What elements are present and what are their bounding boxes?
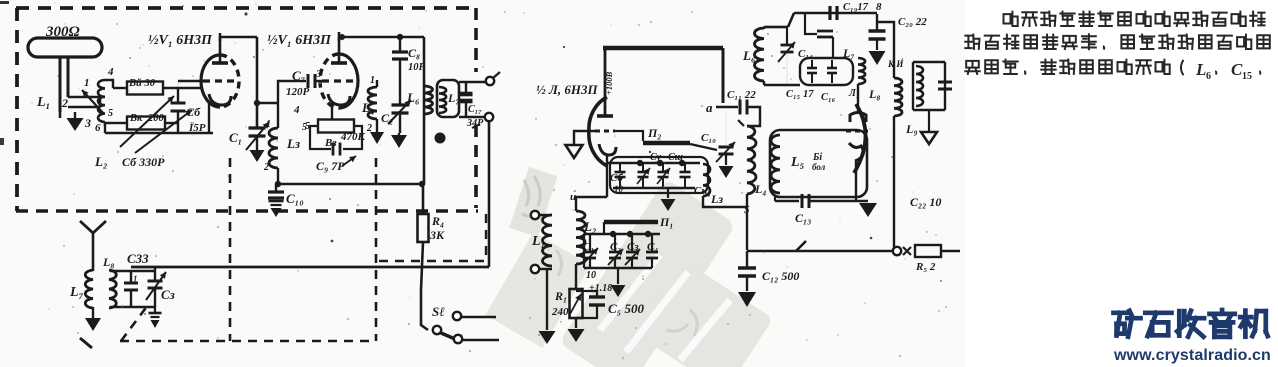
- resistor B2 200: [105, 122, 113, 123]
- capacitor C7: [307, 74, 310, 88]
- cathode lead V1a: [208, 101, 210, 133]
- top rail with C19: [764, 26, 788, 29]
- cathode hook: [849, 143, 863, 161]
- svg-text:С₁₉17: С₁₉17: [843, 2, 869, 13]
- svg-text:С₅ 500: С₅ 500: [608, 301, 644, 316]
- Chinese paragraph line 1: [1004, 12, 1018, 26]
- oscillator coil box L5: [770, 130, 867, 197]
- switch P2 bar: [643, 141, 690, 145]
- triode &#189;V&#8321; 6&#1053;3&#1055;: [201, 55, 220, 107]
- capacitor C5 500: [576, 291, 597, 297]
- svg-text:L₁: L₁: [36, 95, 50, 110]
- dashed shield box (RF unit outline): [16, 6, 478, 10]
- junction blob: [435, 133, 446, 144]
- svg-text:С₁₃: С₁₃: [795, 211, 811, 225]
- open ground triangle below L9: [928, 110, 930, 132]
- coil L7 (lower): [85, 270, 93, 308]
- watermark gray band: [485, 167, 773, 367]
- resistor R4 3K: [422, 184, 425, 214]
- coil L8 (lower): [109, 270, 116, 308]
- svg-text:L₆: L₆: [742, 48, 756, 63]
- svg-text:Вй 30: Вй 30: [128, 78, 156, 89]
- grid lead tube V1a to C6: [178, 80, 203, 82]
- plate (curved): [850, 113, 866, 123]
- junction dot: [397, 34, 403, 40]
- svg-text:1: 1: [266, 119, 271, 130]
- svg-text:L₉: L₉: [905, 122, 918, 136]
- coil L7 (osc): [858, 58, 865, 84]
- coil L4 with arrow: [368, 87, 377, 119]
- svg-text:R₁: R₁: [554, 289, 567, 303]
- capacitor C13: [774, 197, 776, 201]
- svg-text:бол: бол: [812, 162, 826, 172]
- svg-text:L₄: L₄: [361, 100, 374, 115]
- triode envelope arc: [589, 97, 607, 166]
- svg-text:С₁₁ 22: С₁₁ 22: [727, 89, 756, 101]
- svg-text:½V₁ 6Н3П: ½V₁ 6Н3П: [267, 33, 332, 48]
- node circle and R5: [893, 247, 901, 255]
- ground right of C13: [867, 202, 869, 204]
- ground below C1: [256, 148, 258, 150]
- svg-text:L₂: L₂: [94, 154, 107, 169]
- svg-text:С₁: С₁: [229, 130, 242, 145]
- output terminal 2: [459, 116, 485, 118]
- svg-text:240: 240: [551, 306, 569, 318]
- cathode lead V1b to R3: [331, 103, 333, 119]
- crystalradio logo characters: [1114, 310, 1127, 315]
- coil L6 (osc): [763, 27, 765, 29]
- svg-text:L₂: L₂: [583, 219, 596, 234]
- trimmer C7: [642, 163, 644, 172]
- coil L3 (small, at bank right): [703, 164, 710, 196]
- Chinese paragraph line 3: [965, 61, 979, 74]
- svg-text:15: 15: [1242, 71, 1252, 82]
- trimmer bank C1-C4 top bus: [584, 233, 660, 235]
- bottom rail input unit: [105, 132, 213, 134]
- svg-text:С₁₇: С₁₇: [468, 104, 482, 115]
- resistor R1 240: [570, 289, 583, 318]
- grid: [595, 130, 615, 133]
- svg-text:L₈: L₈: [868, 87, 881, 101]
- svg-text:Сб 330Р: Сб 330Р: [122, 155, 165, 169]
- ground below antenna: [74, 112, 76, 118]
- svg-text:С₁₆: С₁₆: [821, 92, 836, 103]
- trimmer C1: [589, 234, 591, 252]
- capacitor C8 10P: [399, 37, 401, 52]
- svg-text:www.crystalradio.cn: www.crystalradio.cn: [1113, 347, 1271, 364]
- svg-text:2: 2: [263, 162, 269, 173]
- antenna (lower Y): [80, 221, 106, 233]
- coil L3: [269, 128, 278, 168]
- svg-text:L₇: L₇: [842, 46, 855, 60]
- second trimmer bank box: [610, 157, 708, 193]
- wire grid circuit to L3: [257, 102, 278, 104]
- svg-text:+1.18: +1.18: [589, 283, 612, 294]
- svg-text:L₅: L₅: [790, 155, 805, 170]
- svg-text:6: 6: [95, 122, 101, 134]
- Chinese paragraph line 2: [965, 35, 979, 49]
- svg-text:С₁₀: С₁₀: [286, 191, 304, 206]
- svg-text:С₁₂ 500: С₁₂ 500: [762, 269, 799, 283]
- svg-text:а: а: [706, 100, 713, 115]
- svg-text:Sℓ: Sℓ: [432, 304, 445, 319]
- resistor R3 470K: [318, 120, 354, 133]
- grid dashes: [846, 130, 868, 133]
- svg-text:С₂: С₂: [381, 111, 393, 125]
- svg-text:6: 6: [1206, 71, 1211, 82]
- svg-text:5: 5: [108, 108, 113, 119]
- long wire from tank to IF terminals: [131, 266, 489, 269]
- trimmer C3: [631, 234, 633, 252]
- svg-text:Сш: Сш: [668, 152, 683, 163]
- trimmer C2: [614, 234, 616, 252]
- trimmer C6 10: [619, 163, 621, 172]
- svg-text:С₈: С₈: [408, 46, 420, 60]
- IF transformer L6 L7: [423, 37, 426, 184]
- svg-text:Сб: Сб: [610, 172, 623, 184]
- tank top/bottom rails: [110, 270, 155, 272]
- svg-text:R₄: R₄: [431, 214, 444, 228]
- svg-text:Вз: Вз: [324, 137, 337, 149]
- ground below bank: [617, 268, 619, 284]
- svg-text:Сз: Сз: [627, 241, 639, 253]
- svg-text:5: 5: [302, 122, 307, 133]
- coil L2 (antenna coupling coil): [98, 80, 105, 122]
- svg-text:Lз: Lз: [286, 136, 300, 151]
- wire L2 top to cathode line: [576, 197, 607, 211]
- capacitor C17 34P: [465, 82, 467, 94]
- svg-text:½V₁ 6Н3П: ½V₁ 6Н3П: [148, 33, 213, 48]
- svg-text:Сз: Сз: [161, 287, 175, 302]
- switch P1 bar: [604, 220, 658, 225]
- coil L4 (osc grid): [747, 126, 756, 194]
- dashed tuning-gang box (lower): [229, 158, 232, 341]
- tuning slug arrows: [120, 96, 174, 147]
- svg-text:Lз: Lз: [710, 192, 723, 206]
- svg-text:L₇: L₇: [69, 285, 84, 300]
- capacitor C33: [130, 271, 132, 283]
- loop antenna L1: [28, 38, 102, 57]
- svg-text:С33: С33: [127, 251, 149, 266]
- svg-text:С₂₀ 22: С₂₀ 22: [898, 16, 927, 28]
- svg-text:С₄: С₄: [647, 241, 658, 253]
- long bottom wire: [893, 130, 895, 251]
- svg-text:L₄: L₄: [754, 182, 767, 196]
- wire top rail input unit: [105, 80, 113, 88]
- ground below C2: [398, 133, 400, 135]
- triode (right half arc): [854, 104, 866, 173]
- svg-text:П₁: П₁: [659, 215, 674, 229]
- svg-text:R₅ 2: R₅ 2: [915, 261, 936, 273]
- grid to P2 stub: [615, 131, 643, 141]
- bottom rail wire with C10: [278, 183, 424, 186]
- coil L1 (input): [543, 215, 553, 266]
- svg-text:½ Л, 6Н3П: ½ Л, 6Н3П: [536, 82, 599, 97]
- svg-text:Су: Су: [650, 152, 662, 163]
- svg-text:L₆: L₆: [406, 90, 420, 105]
- padder box C15 C16: [800, 58, 853, 85]
- svg-text:С₁₅ 17: С₁₅ 17: [786, 89, 814, 100]
- plate wire V1b: [338, 37, 341, 41]
- svg-text:L: L: [1195, 60, 1206, 79]
- capacitor C3 variable: [154, 267, 156, 281]
- svg-text:3: 3: [84, 116, 91, 130]
- svg-text:П₂: П₂: [647, 126, 662, 140]
- terminal antenna top: [531, 211, 539, 219]
- resistor B1 30: [127, 82, 163, 95]
- ground below L7: [92, 307, 94, 316]
- capacitor C12 500: [746, 251, 748, 268]
- trimmer C14: [786, 28, 788, 45]
- trimmer C8: [662, 163, 664, 172]
- scan background tint: [0, 0, 965, 367]
- svg-text:L₇: L₇: [447, 91, 460, 105]
- capacitor C2 variable: [392, 103, 409, 106]
- svg-text:1: 1: [133, 274, 138, 284]
- capacitor C9 7P: [310, 126, 331, 149]
- svg-text:L₈: L₈: [102, 255, 115, 269]
- corner scan mark: [0, 138, 4, 145]
- bottom bus: [584, 267, 652, 269]
- svg-text:3К: 3К: [429, 228, 445, 242]
- thick plate supply wire: [603, 46, 723, 51]
- svg-text:1: 1: [370, 75, 375, 86]
- cathode: [599, 144, 616, 155]
- wire R4 to switch: [421, 242, 428, 330]
- svg-text:120Р: 120Р: [286, 86, 310, 98]
- plate wire V1a up and right to C1 line: [220, 36, 257, 39]
- L9 tank: [913, 61, 945, 63]
- trimmer C4: [651, 234, 653, 252]
- trimmer C9: [684, 163, 686, 172]
- scan speckles: [26, 2, 947, 359]
- ground below C3: [154, 307, 156, 313]
- capacitor C6 15P: [177, 88, 179, 102]
- svg-text:К И́: К И́: [887, 59, 904, 69]
- capacitor C11 22: [739, 100, 742, 115]
- svg-text:С₉ 7Р: С₉ 7Р: [316, 159, 345, 173]
- plate: [597, 114, 613, 118]
- svg-text:L₁: L₁: [531, 234, 545, 249]
- capacitor C1 variable: [249, 126, 266, 129]
- svg-text:1: 1: [84, 77, 90, 89]
- svg-text:4: 4: [107, 66, 114, 78]
- coil L8 (osc plate): [894, 78, 902, 116]
- svg-text:10: 10: [586, 270, 596, 281]
- svg-text:С₂: С₂: [610, 241, 621, 253]
- svg-text:С₁₀: С₁₀: [701, 132, 716, 144]
- grid capacitor (top small trimmer): [817, 30, 833, 33]
- svg-text:8: 8: [876, 1, 882, 13]
- svg-text:Вк: Вк: [129, 113, 143, 124]
- svg-text:С₂₂ 10: С₂₂ 10: [910, 195, 941, 209]
- vertical wire C1 branch: [256, 37, 259, 127]
- P2 to C10 link: [690, 144, 717, 150]
- wire L2 bottom to R1: [575, 264, 577, 289]
- ground below R1: [575, 318, 577, 328]
- bank bottom bus + ground: [613, 187, 695, 189]
- svg-text:4: 4: [293, 104, 300, 116]
- triode &#189;V&#8321; 6&#1053;3&#1055;: [339, 54, 358, 108]
- output terminal 1: [459, 81, 486, 83]
- terminal antenna bottom: [531, 265, 539, 273]
- C20 22 to ground: [876, 14, 878, 31]
- svg-text:2: 2: [61, 96, 68, 110]
- coil L2: [576, 211, 585, 264]
- ground below L1: [546, 269, 548, 330]
- svg-text:+100В: +100В: [604, 71, 614, 95]
- bank top bus: [607, 162, 700, 164]
- capacitor C10 to ground: [275, 184, 277, 192]
- open ground triangle: [573, 144, 575, 146]
